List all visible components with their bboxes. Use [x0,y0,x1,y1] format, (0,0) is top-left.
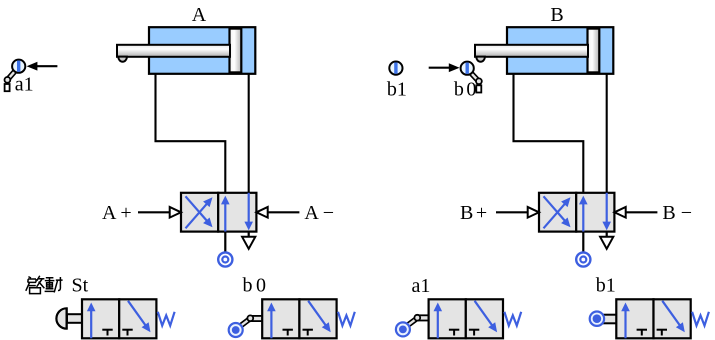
svg-text:b1: b1 [596,275,616,297]
label B+ [460,202,487,224]
valve b0 right box [299,299,336,338]
svg-text:B: B [550,4,563,26]
label a1 (top) [15,74,34,96]
valve V2 right pilot triangle [614,207,625,218]
valve V2 up arrow [579,196,588,232]
valve V1 crossed arrows [186,196,213,228]
cylinder B label [550,4,563,26]
valve b1 roller [590,312,604,326]
svg-text:b1: b1 [387,78,407,100]
valve V2 exhaust line [606,232,608,237]
cylinder A rod [117,45,230,57]
valve b1 return spring [692,312,709,326]
valve V2 left box [539,193,576,232]
svg-text:a1: a1 [15,74,34,96]
valve b1 right box blocked port T [657,330,667,336]
cylinder B rod tip cam [476,57,485,62]
valve V1 down arrow [244,193,253,231]
label b1 (top) [387,78,407,100]
valve St up arrow [87,303,96,339]
push button St stem [67,314,82,323]
limit switch a1 roller [12,60,25,73]
valve V1 exhaust line [248,232,250,237]
limit switch b0 roller [461,62,474,75]
valve V2 right pilot line [626,211,658,213]
valve V1 left pilot triangle [170,207,181,218]
limit switch b0 lever [471,73,479,81]
valve V2 exhaust triangle [600,237,613,249]
valve V1 up arrow [221,196,230,232]
svg-text:b0: b0 [454,78,477,100]
wire B right port [606,74,608,193]
valve St return spring [158,312,175,326]
valve V1 right pilot triangle [256,207,267,218]
label start (qi dong) glyph 1 [26,276,45,294]
valve V1 right box [218,193,256,232]
valve V1 source line [224,232,226,253]
label St [72,275,89,297]
limit switch b1 roller [389,62,402,75]
valve b1 label [596,275,616,297]
valve a1 return spring [504,312,521,326]
valve b0 diagonal arrow [308,301,331,333]
cylinder B rod [475,45,588,57]
limit switch b0 mount [476,85,481,92]
valve V1 right pilot line [268,211,300,213]
valve V2 down arrow [602,193,611,231]
valve St right box blocked port T [122,330,132,336]
valve b1 right box [654,299,691,338]
valve b1 plunger [601,315,617,324]
valve V2 left pilot line [496,211,528,213]
valve b1 left box blocked port T [637,330,647,336]
valve a1 up arrow [434,303,443,339]
valve b0 return spring [338,312,355,326]
svg-text:B−: B− [662,202,692,224]
wire A left port (jog) [156,74,226,193]
valve b1 diagonal arrow [662,301,685,333]
valve St left box [82,299,119,338]
valve b0 left box blocked port T [283,330,293,336]
valve a1 left box [429,299,466,338]
valve V1 left pilot line [138,211,170,213]
valve a1 roller lever [407,315,429,326]
svg-text:St: St [72,275,89,297]
limit switch a1 lever [8,71,16,80]
valve a1 left box blocked port T [449,330,459,336]
valve St left box blocked port T [102,330,112,336]
valve b0 right box blocked port T [303,330,313,336]
valve a1 diagonal arrow [475,301,498,333]
valve b0 roller lever [240,315,262,326]
valve V2 left pilot triangle [528,207,539,218]
svg-text:A −: A − [304,202,334,224]
valve V2 right box [576,193,614,232]
valve a1 right box [466,299,503,338]
svg-text:b0: b0 [243,274,267,296]
arrow into a1 [27,62,58,71]
limit switch a1 pivot [5,77,11,83]
valve V2 pressure source [576,252,590,266]
svg-text:A +: A + [102,202,132,224]
arrow into b0 [429,63,460,72]
valve b1 left box [616,299,653,338]
svg-text:B+: B+ [460,202,487,224]
cylinder A piston [230,29,242,73]
wire A right port [248,74,250,193]
valve a1 right box blocked port T [469,330,479,336]
label B- [662,202,692,224]
valve a1 label [412,275,431,297]
push button St head [56,308,66,330]
label start (qi dong) glyph 2 [45,277,63,292]
cylinder B body [507,27,613,74]
valve St right box [119,299,156,338]
valve V1 exhaust triangle [242,237,255,249]
valve b0 left box [262,299,299,338]
valve V2 crossed arrows [544,196,571,228]
limit switch a1 mount [5,84,10,91]
valve V2 source line [582,232,584,253]
svg-text:A: A [192,4,207,26]
valve St diagonal arrow [128,301,151,333]
label b0 (top) [454,78,477,100]
svg-text:a1: a1 [412,275,431,297]
label A+ [102,202,132,224]
valve b0 up arrow [267,303,276,339]
valve b0 roller [229,323,243,337]
label A- [304,202,334,224]
valve b0 label [243,274,267,296]
cylinder A body [149,27,255,74]
cylinder B piston [588,29,600,73]
limit switch b0 pivot [476,78,482,84]
valve V1 left box [181,193,218,232]
wire B left port (jog) [514,74,584,193]
cylinder A label [192,4,207,26]
valve b1 up arrow [621,303,630,339]
valve V1 pressure source [218,252,232,266]
valve a1 roller [396,322,410,336]
cylinder A rod tip cam [118,57,127,62]
